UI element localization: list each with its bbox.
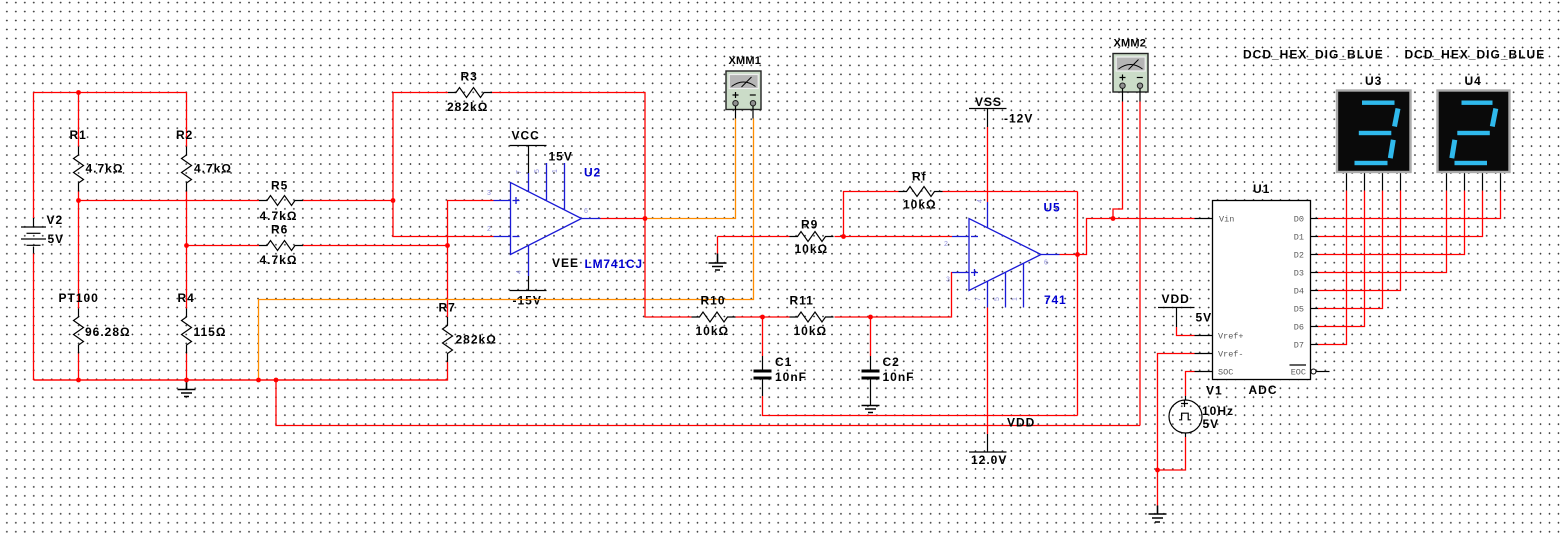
wire node to Rf	[844, 192, 899, 237]
wire PT100 bottom	[78, 354, 80, 381]
svg-text:DCD_HEX_DIG_BLUE: DCD_HEX_DIG_BLUE	[1243, 48, 1384, 62]
resistor R1	[74, 147, 84, 192]
resistor PT100	[78, 201, 80, 309]
svg-text:3: 3	[487, 190, 491, 197]
resistor Rf	[899, 187, 943, 197]
wire R6 to node	[303, 245, 448, 247]
svg-text:115Ω: 115Ω	[194, 325, 227, 339]
clock source V1	[1169, 396, 1202, 437]
svg-text:R7: R7	[439, 301, 456, 315]
wire Rf right to output node	[943, 191, 1078, 193]
svg-text:Rf: Rf	[912, 170, 927, 184]
svg-text:4.7kΩ: 4.7kΩ	[260, 253, 298, 267]
wire R3 right to output node	[492, 93, 645, 219]
svg-text:U5: U5	[1044, 201, 1061, 215]
wire bottom ground long rail	[276, 380, 1140, 426]
svg-text:EOC: EOC	[1291, 368, 1306, 378]
svg-text:96.28Ω: 96.28Ω	[85, 325, 131, 339]
wire node B up to U2 noninverting input	[448, 201, 494, 246]
svg-text:10kΩ: 10kΩ	[696, 324, 730, 338]
wire D4 to display	[1318, 191, 1401, 291]
op-amp U2	[494, 163, 601, 276]
display U3 pins	[1347, 172, 1401, 191]
node top rail R1	[76, 90, 81, 95]
node R9 Rf	[841, 234, 846, 239]
node bridge right	[184, 243, 189, 248]
wire node B down to R7	[447, 246, 449, 318]
wire node A to U2 inverting input	[393, 201, 494, 237]
svg-text:C1: C1	[775, 355, 792, 369]
wire orange XMM1 plus to output node	[645, 119, 736, 219]
wire battery bottom lead	[33, 254, 35, 381]
capacitor C1	[754, 317, 772, 396]
svg-text:5V: 5V	[1196, 311, 1213, 325]
svg-text:D5: D5	[1294, 305, 1304, 315]
node R11 C2	[868, 315, 873, 320]
VCC power symbol	[510, 146, 547, 174]
wire R5 to node	[303, 200, 393, 202]
svg-text:10kΩ: 10kΩ	[903, 198, 937, 212]
svg-text:10nF: 10nF	[775, 370, 807, 384]
node U5 output	[1075, 252, 1080, 257]
wire R4 bottom	[186, 354, 188, 381]
wire D5 to display	[1318, 191, 1383, 309]
junction node dots	[76, 90, 1160, 472]
ground bridge bottom	[178, 380, 196, 397]
VEE power symbol	[510, 276, 547, 291]
node R10 C1	[760, 315, 765, 320]
svg-text:10kΩ: 10kΩ	[795, 242, 829, 256]
svg-text:D7: D7	[1294, 341, 1304, 351]
wire bridge left node to R5	[79, 200, 260, 202]
node B R6/R7	[445, 243, 450, 248]
svg-text:D6: D6	[1294, 323, 1304, 333]
svg-text:R10: R10	[701, 294, 726, 308]
svg-text:4.7kΩ: 4.7kΩ	[194, 162, 232, 176]
node V1 ground	[1155, 468, 1160, 473]
svg-text:5: 5	[994, 297, 1001, 301]
wire V1 bottom to ground node	[1158, 437, 1186, 470]
wire D1 to display	[1318, 191, 1483, 237]
op-amp U5	[952, 202, 1060, 308]
svg-text:VDD: VDD	[1007, 416, 1035, 430]
node bottom PT100	[76, 378, 81, 383]
svg-text:12.0V: 12.0V	[971, 453, 1007, 467]
node bridge left	[76, 198, 81, 203]
node Vin XMM2	[1111, 216, 1116, 221]
wire D0 to display	[1318, 191, 1501, 219]
svg-text:R11: R11	[790, 294, 814, 308]
wire U5 output	[1060, 219, 1114, 255]
svg-text:10nF: 10nF	[883, 370, 915, 384]
wire D3 to display	[1318, 191, 1447, 273]
wire XMM2 plus jog to output node	[1113, 102, 1123, 219]
wire orange XMM1 minus to ground rail	[259, 119, 754, 381]
wire XMM2 minus down to ground rail	[1139, 102, 1141, 426]
wire R2 top	[186, 93, 188, 147]
resistor R5	[259, 196, 303, 206]
12.0V power symbol	[969, 308, 1007, 453]
svg-text:7: 7	[516, 170, 523, 174]
svg-text:XMM1: XMM1	[729, 55, 762, 67]
node bottom orange	[256, 378, 261, 383]
wire C1 bottom loop to U5 output	[763, 396, 1078, 416]
svg-text:282kΩ: 282kΩ	[447, 100, 488, 114]
VSS power symbol	[969, 109, 1007, 203]
svg-text:5V: 5V	[1203, 417, 1220, 431]
wire R11 to U5 plus corner	[835, 273, 953, 318]
svg-text:R4: R4	[178, 291, 195, 305]
node U2 output	[643, 216, 648, 221]
svg-text:D0: D0	[1294, 215, 1304, 225]
svg-text:R1: R1	[70, 128, 87, 142]
svg-text:2: 2	[487, 226, 491, 233]
svg-text:R5: R5	[271, 179, 288, 193]
wire D2 to display	[1318, 191, 1465, 255]
svg-text:LM741CJ: LM741CJ	[585, 257, 643, 271]
svg-text:V1: V1	[1206, 384, 1223, 398]
wire output node to ADC Vin	[1113, 218, 1195, 220]
ground V1	[1149, 506, 1167, 523]
wire R1 top	[78, 93, 80, 147]
resistor R3	[448, 88, 492, 98]
svg-text:10kΩ: 10kΩ	[794, 324, 828, 338]
svg-text:ADC: ADC	[1249, 383, 1278, 397]
node bottom R4 ground	[184, 378, 189, 383]
wire bottom ground rail	[34, 379, 448, 381]
wire V1 top to SOC	[1186, 372, 1195, 397]
VDD power symbol	[1158, 308, 1195, 336]
svg-text:SOC: SOC	[1218, 368, 1233, 378]
svg-text:U3: U3	[1365, 74, 1382, 88]
display U4	[1438, 91, 1510, 173]
svg-text:D2: D2	[1294, 251, 1304, 261]
ground C2	[862, 406, 880, 413]
svg-text:-15V: -15V	[513, 294, 542, 308]
wire R2 bottom to R4	[186, 192, 188, 309]
svg-text:VDD: VDD	[1162, 292, 1190, 306]
svg-text:U1: U1	[1253, 182, 1270, 196]
wire D7 to display	[1318, 191, 1347, 345]
svg-text:PT100: PT100	[59, 291, 99, 305]
wire node A up to R3	[393, 93, 448, 201]
svg-text:6: 6	[584, 208, 588, 215]
svg-text:282kΩ: 282kΩ	[456, 333, 497, 347]
resistor R11	[790, 312, 834, 322]
wire U2 output to node	[601, 218, 646, 220]
resistor R10	[692, 312, 736, 322]
svg-text:U4: U4	[1465, 74, 1482, 88]
wire R9 to U5 inverting input	[835, 236, 953, 238]
display U3	[1337, 91, 1411, 173]
svg-text:Vref-: Vref-	[1218, 350, 1244, 360]
svg-text:VSS: VSS	[975, 95, 1002, 109]
resistor R6	[259, 241, 303, 251]
svg-text:DCD_HEX_DIG_BLUE: DCD_HEX_DIG_BLUE	[1405, 48, 1546, 62]
resistor R4	[182, 309, 192, 354]
battery V2	[21, 218, 46, 254]
wire top rail battery to R2	[34, 92, 187, 94]
svg-text:4.7kΩ: 4.7kΩ	[86, 162, 124, 176]
svg-text:C2: C2	[883, 355, 900, 369]
svg-text:1: 1	[552, 169, 559, 173]
svg-text:15V: 15V	[549, 150, 573, 164]
multimeter XMM1	[726, 71, 761, 119]
wire output node down to R10	[645, 219, 692, 318]
svg-text:Vref+: Vref+	[1218, 332, 1244, 342]
svg-text:VEE: VEE	[552, 256, 579, 270]
svg-text:4: 4	[516, 270, 523, 274]
svg-text:5V: 5V	[48, 232, 65, 246]
wire Vref- to ground	[1158, 354, 1195, 506]
node bottom long rail	[274, 378, 279, 383]
svg-text:7: 7	[975, 297, 982, 301]
resistor R7	[443, 317, 453, 362]
svg-text:R3: R3	[461, 70, 478, 84]
node A R5/R3	[391, 198, 396, 203]
wire R10 to R11	[736, 316, 790, 318]
svg-text:D4: D4	[1294, 287, 1304, 297]
svg-text:D3: D3	[1294, 269, 1304, 279]
wire R1 bottom	[78, 192, 80, 201]
wire D6 to display	[1318, 191, 1365, 327]
wire ground to R9	[718, 236, 790, 238]
svg-text:R2: R2	[176, 128, 193, 142]
svg-text:Vin: Vin	[1219, 215, 1234, 225]
svg-text:V2: V2	[47, 213, 64, 227]
svg-text:1: 1	[1012, 297, 1019, 301]
capacitor C2	[862, 317, 880, 406]
svg-text:VCC: VCC	[512, 129, 540, 143]
svg-text:741: 741	[1044, 293, 1066, 307]
multimeter XMM2	[1113, 54, 1148, 102]
wire Rf/C1 vertical to output dot	[1077, 192, 1079, 416]
svg-text:10Hz: 10Hz	[1202, 404, 1234, 418]
svg-text:R6: R6	[271, 223, 288, 237]
svg-text:R9: R9	[801, 218, 818, 232]
svg-text:2: 2	[944, 241, 948, 248]
svg-text:6: 6	[1044, 260, 1048, 267]
svg-text:-12V: -12V	[1004, 112, 1033, 126]
wire bridge right node to R6	[187, 245, 260, 247]
resistor R9	[790, 232, 834, 242]
svg-text:4: 4	[977, 199, 984, 203]
svg-text:5: 5	[534, 169, 541, 173]
wire R7 bottom to ground rail	[34, 362, 448, 380]
svg-text:3: 3	[946, 277, 950, 284]
svg-text:XMM2: XMM2	[1114, 38, 1147, 50]
svg-text:4.7kΩ: 4.7kΩ	[260, 209, 298, 223]
svg-text:U2: U2	[584, 166, 601, 180]
display U4 pins	[1447, 172, 1501, 191]
wire battery top lead	[33, 93, 35, 219]
ground R9	[709, 237, 727, 271]
svg-text:D1: D1	[1294, 233, 1304, 243]
resistor R2	[182, 147, 192, 192]
ADC U1	[1195, 201, 1330, 380]
